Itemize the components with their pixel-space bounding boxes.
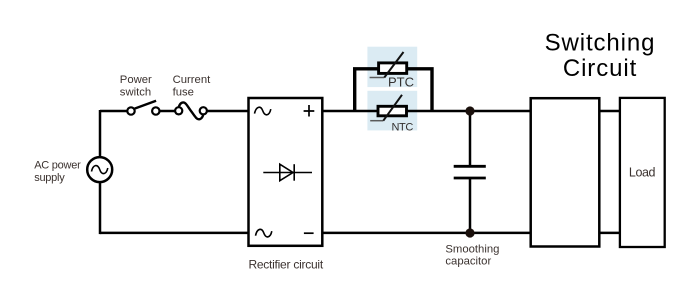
svg-text:AC power: AC power xyxy=(34,159,81,171)
svg-text:Power: Power xyxy=(120,74,152,86)
svg-text:switch: switch xyxy=(120,87,151,99)
svg-text:Current: Current xyxy=(173,74,212,86)
svg-text:Load: Load xyxy=(629,165,656,179)
svg-text:Switching: Switching xyxy=(545,29,656,56)
svg-text:capacitor: capacitor xyxy=(445,256,491,268)
svg-text:Circuit: Circuit xyxy=(563,55,637,82)
svg-text:NTC: NTC xyxy=(392,121,414,133)
svg-text:fuse: fuse xyxy=(173,87,194,99)
svg-text:supply: supply xyxy=(34,172,65,184)
svg-text:PTC: PTC xyxy=(388,75,414,90)
svg-text:Rectifier circuit: Rectifier circuit xyxy=(248,258,323,272)
svg-text:Smoothing: Smoothing xyxy=(445,244,499,256)
